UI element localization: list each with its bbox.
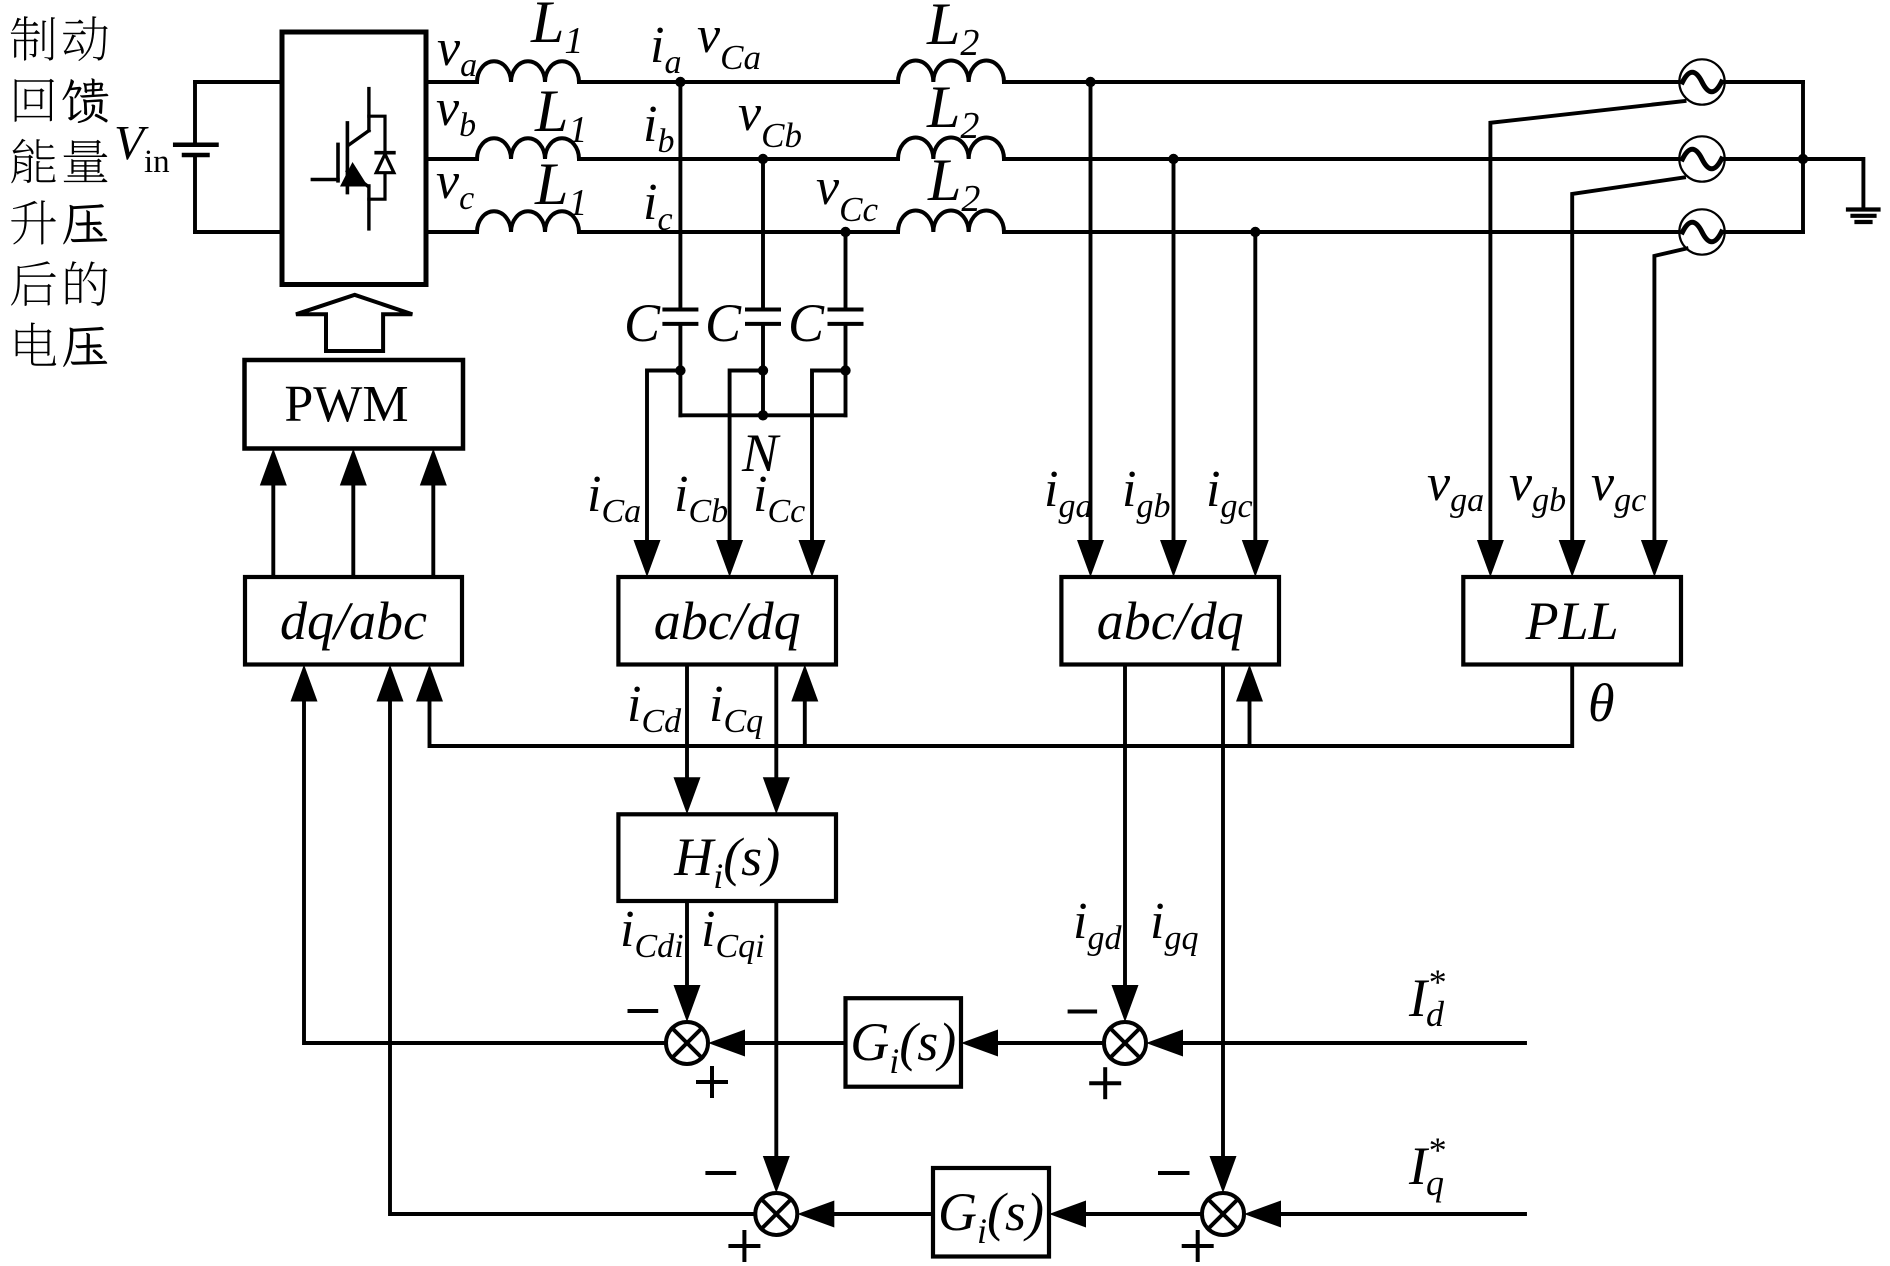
wire phase a: L1 to L2 [579,80,898,84]
AC source v_ga [1679,59,1724,104]
svg-text:PLL: PLL [1525,591,1619,651]
svg-text:I*d: I*d [1408,962,1445,1034]
wire dq/abc to PWM [351,484,355,578]
junction capacitor Cc bottom [840,365,850,375]
svg-text:θ: θ [1588,673,1615,733]
wire phase c: L2 to source [1004,230,1679,234]
wire capacitor Cc upper lead [844,232,848,310]
svg-text:C: C [705,293,742,353]
inductor L2 phase a [898,60,1004,82]
label ib [643,96,674,160]
inductor L2 phase c [898,210,1004,232]
wire right bus [1801,82,1805,232]
wire igb sense line [1172,159,1176,542]
svg-text:abc/dq: abc/dq [654,591,801,651]
junction right bus neutral [1798,154,1808,164]
svg-text:I*q: I*q [1408,1130,1445,1203]
label L1 phase c [534,151,587,224]
junction igb tap [1168,154,1178,164]
wire capacitor Cc lower lead [844,324,848,415]
inductor L1 phase a [477,61,579,82]
label iCb [674,466,728,530]
wire vgb sense [1572,178,1684,543]
capacitor Ca [664,310,696,324]
wire to ground [1803,159,1863,210]
battery Vin [175,82,216,232]
wire Iq* input [1280,1212,1525,1216]
label C phase c [788,293,825,353]
AC source v_gc [1679,209,1724,254]
arrow igq into sum4 [1210,1156,1237,1193]
inductor L2 phase b [898,137,1004,159]
label vb [436,80,476,144]
arrow vgb into PLL [1559,540,1586,577]
wire Gi1 output to sum1 [744,1041,846,1045]
wire iCa branch [647,371,680,543]
PLL block [1463,577,1681,665]
IGBT with antiparallel diode [312,89,394,229]
junction node N [758,410,768,420]
wire source c to right bus [1725,230,1803,234]
summing junction sum4 [1202,1193,1244,1235]
label L2 phase a [926,0,979,64]
junction capacitor Cb bottom [758,365,768,375]
wire sum4 to Gi2 [1085,1212,1202,1216]
arrow into sum4 [1244,1201,1281,1228]
inductor L1 phase b [477,138,579,159]
junction igc tap [1250,227,1260,237]
Gi(s) block (d axis) [846,998,962,1086]
wire phase b: inverter to L1 [426,157,477,161]
svg-text:PWM: PWM [284,376,408,433]
label igq [1150,893,1198,957]
AC source v_gb [1679,136,1724,181]
label C phase a [624,293,661,353]
svg-text:Gi(s): Gi(s) [938,1182,1044,1251]
label ic [643,174,673,238]
wire source b to right bus [1725,157,1803,161]
label iCqi [701,901,765,965]
wire capacitor Ca upper lead [678,82,682,310]
wire iCc branch [812,371,846,543]
label vCb [738,85,802,155]
wire iCq [774,665,778,780]
wire source a to right bus [1725,80,1803,84]
label iCdi [620,901,684,965]
arrow vga into PLL [1477,540,1504,577]
abc/dq block (grid currents) [1061,577,1279,665]
wire capacitor Cb lower lead [761,324,765,415]
label L2 phase c [927,147,980,220]
label iga [1044,461,1092,525]
arrow iCq into Hi(s) [763,777,790,814]
Gi(s) block (q axis) [933,1168,1049,1257]
label vCc [816,159,878,229]
label igb [1122,461,1170,525]
capacitor Cb [747,310,779,324]
wire iga sense line [1089,82,1093,542]
arrow igc into abc/dq [1242,540,1269,577]
label va [437,20,477,84]
wire phase c: L1 to L2 [579,230,898,234]
label iCq [709,676,763,740]
wire vgc sense [1654,249,1686,543]
wire neutral bus [680,413,845,417]
wire battery top to inverter [195,80,282,84]
arrow igb into abc/dq [1160,540,1187,577]
arrow into sum2 [1146,1030,1183,1057]
inverter bridge box [282,32,426,285]
arrow iCdi into sum1 [674,985,701,1022]
arrow into Gi2 [1049,1201,1086,1228]
wire feedback q-axis to dq/abc [390,700,755,1215]
label minus at sum1 [630,1009,657,1013]
svg-text:Gi(s): Gi(s) [850,1012,956,1081]
junction iga tap [1085,77,1095,87]
label iCc [753,466,805,530]
wire sum2 to Gi1 [997,1041,1104,1045]
label iCa [587,466,641,530]
summing junction sum3 [755,1193,797,1235]
label C phase b [705,293,742,353]
svg-text:C: C [788,293,825,353]
arrow into PWM [420,449,447,486]
label minus at sum4 [1160,1171,1188,1175]
junction phase tap for capacitor Ca [675,77,685,87]
wire vga sense [1490,101,1684,542]
label plus at sum2 [1091,1069,1119,1097]
arrow theta into dq/abc [416,665,443,702]
wire iCb branch [730,371,763,543]
wire theta branch to abc/dq (cap) [803,700,807,747]
label igc [1206,461,1253,525]
junction phase tap for capacitor Cb [758,154,768,164]
abc/dq block (capacitor currents) [618,577,836,665]
wire phase c: inverter to L1 [426,230,477,234]
arrow into sum1 [708,1030,745,1057]
arrow into PWM [260,449,287,486]
wire iCdi [685,901,689,987]
label plus at sum1 [698,1068,726,1096]
wire capacitor Ca lower lead [678,324,682,415]
wire battery bottom to inverter [195,230,282,234]
label Vin [114,115,170,180]
ground symbol [1848,210,1879,223]
wire igd [1123,665,1127,988]
arrow iCa into abc/dq [634,540,661,577]
block arrow PWM to inverter [296,295,412,351]
label node N [741,423,781,483]
label L1 phase b [534,78,587,151]
label theta [1588,673,1615,733]
summing junction sum1 [666,1022,708,1064]
inductor L1 phase c [477,211,579,232]
wire dq/abc to PWM [271,484,275,578]
svg-text:C: C [624,293,661,353]
arrow iCc into abc/dq [799,540,826,577]
arrow into sum3 [797,1201,834,1228]
label Iq* [1408,1130,1445,1203]
capacitor Cc [830,310,862,324]
wire phase a: L2 to source [1004,80,1679,84]
wire phase b: L1 to L2 [579,157,898,161]
label minus at sum3 [707,1171,734,1175]
label vgb [1509,455,1566,519]
junction capacitor Ca bottom [675,365,685,375]
arrow q-axis feedback into dq/abc [377,665,404,702]
label igd [1073,893,1122,957]
arrow iga into abc/dq [1077,540,1104,577]
wire iCqi [774,901,778,1158]
svg-text:Hi(s): Hi(s) [673,827,780,896]
arrow theta into abc/dq (cap) [791,665,818,702]
label plus at sum3 [730,1232,758,1260]
wire phase b: L2 to source [1004,157,1679,161]
label plus at sum4 [1184,1232,1212,1260]
wire Id* input [1182,1041,1525,1045]
arrow d-axis feedback into dq/abc [291,665,318,702]
junction phase tap for capacitor Cc [840,227,850,237]
wire phase a: inverter to L1 [426,80,477,84]
wire igq [1221,665,1225,1159]
summing junction sum2 [1104,1022,1146,1064]
label vga [1427,455,1484,519]
PWM block [245,360,464,449]
label Id* [1408,962,1445,1034]
arrow iCqi into sum3 [763,1156,790,1193]
arrow iCb into abc/dq [716,540,743,577]
Hi(s) block [618,814,836,901]
wire dq/abc to PWM [431,484,435,578]
wire feedback d-axis to dq/abc [304,700,666,1044]
caption text 制动回馈能量升压后的电压 (voltage after boosting braking feedback energy) [11,16,109,367]
arrow vgc into PLL [1641,540,1668,577]
wire iCd [685,665,689,780]
label L2 phase b [926,74,979,147]
wire capacitor Cb upper lead [761,159,765,310]
wire theta from PLL [430,665,1573,747]
arrow iCd into Hi(s) [674,777,701,814]
dq/abc block [245,577,462,665]
wire igc sense line [1253,232,1257,542]
svg-text:dq/abc: dq/abc [280,591,427,651]
svg-text:abc/dq: abc/dq [1097,591,1244,651]
label iCd [627,676,682,740]
label minus at sum2 [1070,1010,1096,1014]
wire Gi2 output to sum3 [833,1212,933,1216]
label vCa [697,7,761,77]
arrow into Gi1 [961,1030,998,1057]
arrow into PWM [340,449,367,486]
label vc [436,153,474,217]
wire theta branch to abc/dq (grid) [1248,700,1252,747]
arrow igd into sum2 [1112,985,1139,1022]
arrow theta into abc/dq (grid) [1236,665,1263,702]
label ia [650,17,681,81]
label L1 phase a [530,0,583,62]
label vgc [1591,455,1646,519]
